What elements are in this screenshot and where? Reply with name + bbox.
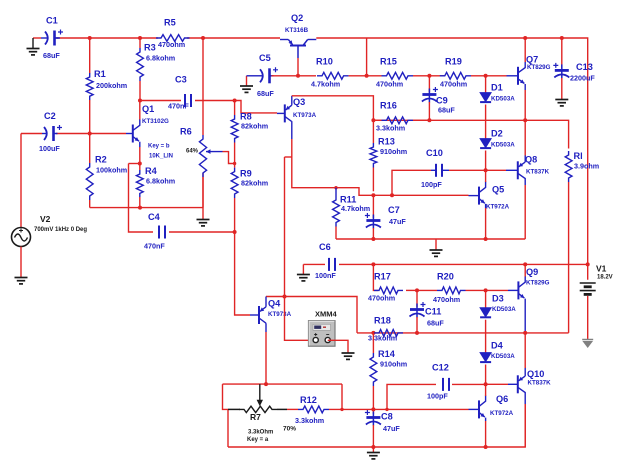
svg-text:C2: C2 — [44, 111, 56, 121]
label R15 — [380, 57, 397, 67]
resistor R4 — [136, 164, 143, 208]
node junction C11/R17/R20 — [415, 288, 419, 292]
svg-text:Key = a: Key = a — [247, 437, 269, 443]
value label V1 18.2V — [597, 275, 613, 281]
ground for mid rail — [430, 239, 443, 256]
wire ground rail mid — [336, 238, 525, 240]
wire R7 top line — [223, 383, 343, 385]
label C9 — [436, 96, 448, 106]
node junction D1/Q7-base — [484, 74, 488, 78]
value label R7 3.3kOhm — [248, 430, 273, 436]
value label R8 82kohm — [241, 122, 268, 131]
svg-text:C10: C10 — [426, 148, 443, 158]
label 10K_LIN — [149, 154, 173, 160]
value label C1 68uF — [43, 51, 60, 60]
wire to Q10 base — [486, 383, 508, 385]
svg-text:Q9: Q9 — [526, 267, 538, 277]
svg-text:R20: R20 — [437, 272, 454, 282]
node junction R8/C3-line — [233, 99, 237, 103]
node junction C7/ground-rail — [371, 237, 375, 241]
capacitor C8 — [365, 410, 381, 447]
wire Q3 collector to R13 top — [292, 96, 374, 121]
wire emitter column — [285, 157, 316, 340]
svg-text:470ohm: 470ohm — [440, 80, 467, 89]
wire R7-left to bottom rail — [227, 409, 229, 447]
wire top rail left (C1 to R5) — [33, 37, 158, 39]
label Rl — [574, 151, 583, 161]
resistor R5 — [156, 35, 190, 42]
label R12 — [300, 395, 317, 405]
svg-text:KT973A: KT973A — [293, 112, 317, 119]
label C4 — [148, 212, 161, 222]
svg-text:KT972A: KT972A — [490, 410, 514, 417]
node junction R12-line/C8-top — [371, 407, 375, 411]
resistor R19 — [440, 72, 471, 79]
label XMM4 — [315, 310, 337, 319]
wire R16 left — [373, 119, 381, 121]
value label Q6 KT972A — [490, 410, 514, 417]
value label C6 100nF — [315, 271, 336, 280]
label C2 — [44, 111, 56, 121]
label C3 — [175, 75, 187, 85]
label R3 — [144, 43, 156, 53]
label R16 — [380, 101, 397, 111]
resistor Rl — [565, 151, 572, 333]
node junction Q7-emitter/output-line — [523, 118, 527, 122]
wire XMM4 right to ground — [328, 340, 348, 353]
value label C7 47uF — [389, 217, 406, 226]
svg-text:R10: R10 — [316, 57, 333, 67]
svg-text:C13: C13 — [576, 62, 593, 72]
value label C4 470nF — [144, 242, 165, 251]
value label R5 470ohm — [158, 40, 185, 49]
svg-text:100pF: 100pF — [427, 392, 448, 401]
svg-text:470nF: 470nF — [144, 242, 165, 251]
label R18 — [374, 316, 391, 326]
value label D3 KD503A — [492, 306, 516, 313]
wire R20 ends — [417, 289, 508, 291]
wire R9 bottom to Q4 base — [235, 232, 250, 315]
label D4 — [491, 341, 504, 351]
svg-text:C6: C6 — [319, 242, 331, 252]
transistor Q2 — [280, 40, 316, 59]
resistor R11 — [333, 188, 340, 239]
svg-text:KD503A: KD503A — [491, 96, 515, 103]
node junction R4-bottom — [138, 206, 142, 210]
ground for C13 — [555, 100, 568, 106]
battery V1 — [580, 283, 596, 294]
svg-text:Q1: Q1 — [142, 104, 154, 114]
wire R6 wiper to R8/R9 — [223, 152, 235, 164]
svg-text:C3: C3 — [175, 75, 187, 85]
value label D1 KD503A — [491, 96, 515, 103]
value label V2 700mV 1kHz 0 Deg — [34, 227, 87, 233]
source V2 (700mV 1kHz) — [12, 228, 31, 247]
svg-text:6.8kohm: 6.8kohm — [146, 177, 175, 186]
node junction C4/Q4-branch — [233, 230, 237, 234]
value label R15 470ohm — [376, 80, 403, 89]
label Q10 — [527, 369, 544, 379]
node junction D3/Q9-base — [484, 288, 488, 292]
ground for XMM4 — [342, 353, 355, 359]
value label D4 KD503A — [491, 353, 515, 360]
svg-text:R14: R14 — [378, 349, 396, 359]
svg-text:68uF: 68uF — [257, 89, 274, 98]
resistor R18 — [374, 330, 403, 337]
svg-text:Q10: Q10 — [527, 369, 544, 379]
capacitor C3 — [185, 94, 191, 107]
potentiometer R7 — [228, 384, 287, 413]
diode D1 — [480, 76, 491, 139]
resistor R10 — [317, 72, 349, 79]
svg-text:47uF: 47uF — [383, 424, 400, 433]
label R17 — [374, 272, 391, 282]
node junction Q9-emitter/output-lower — [523, 331, 527, 335]
svg-text:KT829G: KT829G — [527, 64, 551, 71]
label R5 — [164, 18, 176, 28]
svg-text:R11: R11 — [340, 195, 356, 205]
multimeter XMM4 — [309, 321, 336, 347]
value label Q10 KT837K — [528, 380, 552, 387]
svg-text:4.7kohm: 4.7kohm — [341, 204, 370, 213]
capacitor C10 — [392, 164, 486, 196]
value label R17 470ohm — [368, 294, 395, 303]
wire R16 right — [413, 119, 429, 121]
label R19 — [445, 57, 462, 67]
capacitor C7 — [365, 195, 381, 239]
transistor Q5 — [469, 170, 486, 239]
svg-text:Q4: Q4 — [268, 299, 281, 309]
svg-text:R16: R16 — [380, 101, 397, 111]
svg-text:C11: C11 — [425, 307, 441, 317]
node junction R13-bottom/Q5-base-line — [371, 193, 375, 197]
value label R10 4.7kohm — [311, 80, 340, 89]
svg-text:100pF: 100pF — [421, 180, 442, 189]
value label Q5 KT972A — [486, 204, 510, 211]
value label R11 4.7kohm — [341, 204, 370, 213]
label D2 — [491, 129, 503, 139]
svg-text:R12: R12 — [300, 395, 317, 405]
node junction C13/top-rail — [560, 36, 564, 40]
svg-text:47uF: 47uF — [389, 217, 406, 226]
label R20 — [437, 272, 454, 282]
resistor R1 — [86, 38, 93, 134]
svg-text:Q2: Q2 — [291, 13, 303, 23]
capacitor C11 — [410, 290, 426, 333]
label R11 — [340, 195, 356, 205]
node junction R1/top-rail — [88, 36, 92, 40]
label R14 — [378, 349, 396, 359]
label Q4 — [268, 299, 281, 309]
value label Q7 KT829G — [527, 64, 551, 71]
label Q1 — [142, 104, 154, 114]
value label Q3 KT973A — [293, 112, 317, 119]
label 64% — [186, 149, 199, 155]
svg-text:700mV 1kHz 0 Deg: 700mV 1kHz 0 Deg — [34, 227, 87, 233]
capacitor C12 — [443, 378, 486, 391]
svg-text:Q6: Q6 — [496, 394, 508, 404]
wire V2 to ground — [20, 247, 22, 278]
svg-text:C8: C8 — [381, 412, 393, 422]
value label Q9 KT829G — [526, 280, 550, 287]
label Q8 — [525, 155, 537, 165]
svg-text:200kohm: 200kohm — [96, 81, 127, 90]
wire Q3 emitter stub to left column — [285, 156, 292, 158]
svg-text:4.7kohm: 4.7kohm — [311, 80, 340, 89]
node junction Q4-collector/R7-top — [264, 382, 268, 386]
wire top rail (R5 to Q2) — [187, 37, 280, 39]
value label Rl 3.9ohm — [574, 162, 599, 171]
svg-text:KT972A: KT972A — [486, 204, 510, 211]
label V2 — [40, 214, 51, 224]
svg-text:C12: C12 — [432, 363, 449, 373]
svg-text:Q5: Q5 — [492, 185, 504, 195]
label D3 — [492, 294, 504, 304]
value label C3 470nF — [168, 102, 189, 111]
value label C12 100pF — [427, 392, 448, 401]
svg-text:KT316B: KT316B — [285, 27, 309, 34]
svg-text:R6: R6 — [180, 127, 192, 137]
wire Q3 emitter line — [292, 139, 469, 195]
node junction Q5-emitter/ground-rail — [484, 237, 488, 241]
svg-text:KT829G: KT829G — [526, 280, 550, 287]
node junction R13/R16-line — [371, 118, 375, 122]
svg-text:18.2V: 18.2V — [597, 275, 613, 281]
transistor Q10 — [508, 333, 525, 447]
label Key = b — [148, 144, 170, 150]
svg-text:R1: R1 — [94, 69, 106, 79]
capacitor C5 — [247, 67, 279, 83]
label R9 — [240, 169, 252, 179]
ground for C6 — [297, 264, 310, 281]
label Q7 — [526, 55, 538, 65]
node junction Q1-emitter/C4 — [138, 162, 142, 166]
node junction C10-left/Q5-base-line — [390, 193, 394, 197]
value label C11 68uF — [427, 319, 444, 328]
transistor Q1 — [126, 101, 140, 164]
wire R7 top-left down — [223, 384, 229, 409]
node junction C9-bottom/output-line — [427, 118, 431, 122]
svg-text:R8: R8 — [240, 112, 252, 122]
node junction R11/Q3-emitter-line — [334, 186, 337, 189]
label V1 — [596, 264, 607, 274]
label C10 — [426, 148, 443, 158]
label Q6 — [496, 394, 508, 404]
value label R2 100kohm — [96, 166, 127, 175]
svg-text:XMM4: XMM4 — [315, 310, 337, 319]
svg-text:68uF: 68uF — [427, 319, 444, 328]
svg-text:2200uF: 2200uF — [570, 74, 595, 83]
resistor R3 — [137, 38, 144, 101]
node junction Q2-base/C5-line — [296, 74, 300, 78]
value label R14 910ohm — [380, 360, 407, 369]
node junction C8/bottom-rail — [371, 445, 375, 449]
label Q2 — [291, 13, 303, 23]
wire top rail (Q2 to right corner) and right rail down to V1 — [316, 38, 587, 280]
capacitor C4 — [159, 226, 165, 239]
svg-text:3.9ohm: 3.9ohm — [574, 162, 599, 171]
svg-text:3.3kohm: 3.3kohm — [376, 124, 405, 133]
svg-text:100kohm: 100kohm — [96, 166, 127, 175]
svg-text:C9: C9 — [436, 96, 448, 106]
node junction R2/base-line — [88, 132, 92, 136]
label C5 — [259, 53, 271, 63]
svg-text:V1: V1 — [596, 264, 607, 274]
label R8 — [240, 112, 252, 122]
value label R20 470ohm — [433, 295, 460, 304]
transistor Q6 — [469, 384, 486, 447]
label Q3 — [293, 97, 305, 107]
value label Q8 KT837K — [526, 169, 550, 176]
resistor R12 — [287, 406, 469, 413]
value label D2 KD503A — [491, 142, 515, 149]
capacitor C6 — [303, 258, 373, 271]
label C11 — [425, 307, 441, 317]
label R10 — [316, 57, 333, 67]
svg-text:R3: R3 — [144, 43, 156, 53]
node junction Q7-collector/top-rail — [523, 36, 527, 40]
value label Q2 KT316B — [285, 27, 309, 34]
potentiometer R6 — [199, 38, 222, 208]
value label C5 68uF — [257, 89, 274, 98]
node junction Q3Q4-emitter-column — [283, 295, 287, 299]
svg-text:KT837K: KT837K — [526, 169, 550, 176]
label R7 — [250, 412, 261, 422]
transistor Q9 — [508, 264, 525, 333]
label Q9 — [526, 267, 538, 277]
node junction C12-branch/R12-line — [385, 408, 388, 411]
label R1 — [94, 69, 106, 79]
svg-text:R5: R5 — [164, 18, 176, 28]
svg-text:KT973A: KT973A — [268, 311, 292, 318]
wire output line lower — [266, 297, 569, 333]
value label C2 100uF — [39, 144, 60, 153]
svg-text:R19: R19 — [445, 57, 462, 67]
label R4 — [145, 166, 158, 176]
ground for C5 — [240, 76, 253, 93]
node junction wiper/R8-R9 — [233, 162, 236, 165]
wire R7-topline to R12 line — [341, 384, 343, 409]
diode D3 — [480, 290, 491, 352]
diode D4 — [480, 353, 491, 385]
wire C5 to R10 — [272, 75, 317, 77]
svg-text:6.8kohm: 6.8kohm — [146, 54, 175, 63]
capacitor C1 — [41, 30, 63, 46]
ground arrow for V1 — [582, 340, 593, 349]
resistor R20 — [437, 287, 466, 294]
label R2 — [95, 155, 107, 165]
node junction Q9-collector/C6-line — [523, 262, 527, 266]
value label R19 470ohm — [440, 80, 467, 89]
node junction R10/R15/rail-drop — [365, 74, 369, 78]
label C12 — [432, 363, 449, 373]
svg-text:KT837K: KT837K — [528, 380, 552, 387]
svg-text:Key = b: Key = b — [148, 144, 170, 150]
svg-text:3.3kohm: 3.3kohm — [368, 334, 397, 343]
svg-text:470ohm: 470ohm — [433, 295, 460, 304]
node junction R3/top-rail — [138, 36, 142, 40]
wire Q8 base from D2 — [486, 169, 506, 171]
svg-text:KD503A: KD503A — [491, 353, 515, 360]
transistor Q7 — [507, 38, 526, 120]
label C8 — [381, 412, 393, 422]
label C1 — [46, 16, 58, 26]
value label Q1 KT3102G — [142, 118, 169, 125]
ground for V2 — [15, 278, 28, 284]
value label R3 6.8kohm — [146, 54, 175, 63]
wire R15-R19 — [413, 75, 445, 77]
wire Q2 base down to C5 line — [297, 58, 299, 76]
capacitor C13 — [553, 38, 569, 100]
wire C4 branch — [129, 164, 235, 233]
wire output line upper — [373, 120, 568, 148]
label C13 — [576, 62, 593, 72]
svg-text:100uF: 100uF — [39, 144, 60, 153]
node junction C11-bottom/output-lower — [415, 331, 419, 335]
svg-text:V2: V2 — [40, 214, 51, 224]
svg-text:C7: C7 — [388, 205, 400, 215]
svg-text:D3: D3 — [492, 294, 504, 304]
svg-text:470ohm: 470ohm — [376, 80, 403, 89]
svg-text:R17: R17 — [374, 272, 391, 282]
ground for C8/bottom rail — [367, 447, 380, 459]
wire C12 branch — [387, 384, 436, 409]
svg-text:C4: C4 — [148, 212, 161, 222]
node junction R14-top/output-lower — [371, 331, 375, 335]
node junction C9/R15/R19 — [427, 74, 431, 78]
svg-text:R13: R13 — [378, 137, 395, 147]
capacitor C2 — [42, 125, 62, 141]
svg-text:C5: C5 — [259, 53, 271, 63]
value label R9 82kohm — [241, 179, 268, 188]
svg-text:R4: R4 — [145, 166, 158, 176]
wire C2 left to V2 — [21, 134, 42, 228]
transistor Q4 — [250, 297, 266, 333]
svg-text:D1: D1 — [491, 83, 503, 93]
value label R4 6.8kohm — [146, 177, 175, 186]
svg-text:D2: D2 — [491, 129, 503, 139]
svg-text:KD503A: KD503A — [491, 142, 515, 149]
svg-text:Q7: Q7 — [526, 55, 538, 65]
svg-text:68uF: 68uF — [43, 51, 60, 60]
svg-text:10K_LIN: 10K_LIN — [149, 154, 173, 160]
resistor R15 — [382, 72, 414, 79]
label R6 — [180, 127, 192, 137]
node junction right-rail/C6-line — [586, 262, 590, 266]
resistor R9 — [231, 168, 238, 232]
wire R17 to C11 — [406, 289, 417, 291]
svg-text:C1: C1 — [46, 16, 58, 26]
wire V1 to ground — [587, 296, 589, 339]
value label R12 3.3kohm — [295, 416, 324, 425]
wire Q4 collector down — [265, 332, 267, 384]
transistor Q8 — [506, 120, 525, 239]
svg-text:Q8: Q8 — [525, 155, 537, 165]
node junction R12/Q6-line at x342 — [340, 408, 343, 411]
svg-text:R18: R18 — [374, 316, 391, 326]
svg-text:100nF: 100nF — [315, 271, 336, 280]
label R13 — [378, 137, 395, 147]
label C6 — [319, 242, 331, 252]
svg-text:R15: R15 — [380, 57, 397, 67]
svg-text:82kohm: 82kohm — [241, 179, 268, 188]
wire R2/R4/R6 bottom line to ground — [90, 207, 203, 209]
label Key = a — [247, 437, 269, 443]
svg-text:68uF: 68uF — [438, 106, 455, 115]
label Q5 — [492, 185, 504, 195]
wire R10-R15 — [349, 75, 382, 77]
node junction D2/Q8-base/Q5-collector — [484, 168, 488, 172]
